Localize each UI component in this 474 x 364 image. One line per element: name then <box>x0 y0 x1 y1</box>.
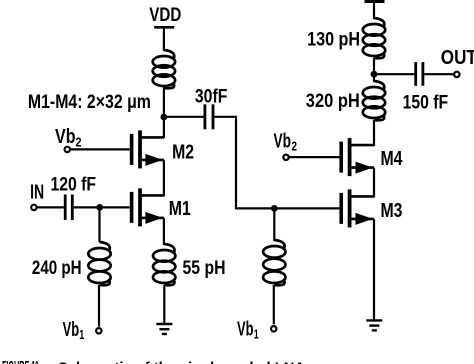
wire L_d1 to output node <box>373 58 375 82</box>
capacitor C1 120fF <box>64 195 74 221</box>
node output tank node <box>371 71 378 78</box>
label Vb1 (left) <box>63 319 85 342</box>
wire L_g to Vb1 <box>98 285 100 327</box>
wire node to C_30f <box>164 116 204 118</box>
wire C_150f to OUT <box>424 73 454 75</box>
svg-text:320 pH: 320 pH <box>306 91 360 112</box>
transistor M1 <box>130 188 164 226</box>
wire interstage line to M3 gate <box>235 207 340 209</box>
label Vb2 (right) <box>274 131 298 154</box>
wire M4 source to M3 drain <box>373 168 375 198</box>
wire L_b to Vb1 mid <box>273 285 275 324</box>
svg-text:130 pH: 130 pH <box>307 29 360 50</box>
wire gate node to M1 gate <box>100 206 130 208</box>
inductor L_d1 130pH <box>363 18 385 58</box>
svg-text:Vb: Vb <box>63 319 80 341</box>
wire L_s to ground <box>163 285 165 324</box>
VDD supply bar (2nd stage) <box>365 0 385 3</box>
svg-text:1: 1 <box>79 327 84 342</box>
svg-text:M1: M1 <box>169 198 191 220</box>
wire C_120f to gate node <box>74 206 100 208</box>
wire VDD bar to L_vdd <box>163 29 165 51</box>
node first-stage output node <box>161 114 168 121</box>
wire L_vdd to M2 drain <box>163 87 165 138</box>
wire C_30f to corner <box>214 116 236 118</box>
wire M1 source to L_s <box>163 218 165 245</box>
VDD supply bar <box>154 26 174 29</box>
wire node to C_150f <box>374 73 414 75</box>
capacitor C2 30fF <box>204 104 215 129</box>
capacitor C3 150fF <box>414 62 424 86</box>
svg-text:FIGURE 11: FIGURE 11 <box>2 358 39 364</box>
svg-text:OUT: OUT <box>441 47 474 69</box>
node M3 gate / bias node <box>271 205 278 212</box>
wire Vb2 to M4 gate <box>289 156 339 158</box>
svg-text:55 pH: 55 pH <box>183 258 226 279</box>
wire L_d2 to M4 drain <box>373 120 375 146</box>
terminal Vb2 left terminal <box>65 147 70 152</box>
inductor L_g 240pH <box>88 242 110 285</box>
svg-text:1: 1 <box>254 327 259 342</box>
wire Vb2 to M2 gate <box>70 148 129 150</box>
wire M3 source to ground <box>373 219 375 321</box>
inductor L_vdd (drain load, 1st stage) <box>153 50 175 88</box>
terminal IN terminal <box>31 205 36 210</box>
label Vb2 (left) <box>55 126 82 150</box>
svg-text:Vb: Vb <box>237 318 254 340</box>
svg-text:2: 2 <box>76 135 82 150</box>
wire gate node down to L_g <box>98 207 100 242</box>
wire corner down to M3 gate line <box>235 116 237 209</box>
terminal Vb2 right terminal <box>283 155 288 160</box>
svg-text:VDD: VDD <box>149 5 181 26</box>
wire bias node down to L_b <box>273 208 275 241</box>
wire IN to C_120f <box>37 206 64 208</box>
terminal Vb1 middle terminal <box>271 326 276 331</box>
inductor L_s 55pH <box>153 244 175 285</box>
svg-text:2: 2 <box>292 139 298 154</box>
transistor M2 <box>130 130 164 168</box>
terminal Vb1 left terminal <box>96 328 101 333</box>
ground left ground <box>156 324 172 334</box>
wire M2 source to M1 drain <box>163 160 165 197</box>
transistor M4 <box>339 138 374 176</box>
inductor L_b (gate bias) <box>263 240 285 285</box>
terminal OUT terminal <box>454 72 459 77</box>
wire VDD bar to L_d1 <box>373 2 375 19</box>
svg-text:M2: M2 <box>172 141 194 163</box>
inductor L_d2 320pH <box>363 81 385 120</box>
svg-text:150 fF: 150 fF <box>403 92 449 113</box>
label Vb1 (middle) <box>237 318 259 341</box>
svg-text:30fF: 30fF <box>195 86 228 107</box>
svg-text:M3: M3 <box>381 200 403 222</box>
node M1 gate node <box>96 204 103 211</box>
transistor M3 <box>339 189 374 227</box>
ground right ground <box>366 320 382 330</box>
svg-text:Vb: Vb <box>274 131 292 153</box>
svg-text:M4: M4 <box>381 148 404 170</box>
svg-text:120 fF: 120 fF <box>51 175 97 196</box>
svg-text:Schematic of the single-ended: Schematic of the single-ended LNA <box>58 360 305 364</box>
svg-text:Vb: Vb <box>55 126 76 148</box>
svg-text:M1-M4: 2×32 μm: M1-M4: 2×32 μm <box>28 92 151 113</box>
svg-text:240 pH: 240 pH <box>32 258 82 279</box>
svg-text:IN: IN <box>30 182 44 204</box>
